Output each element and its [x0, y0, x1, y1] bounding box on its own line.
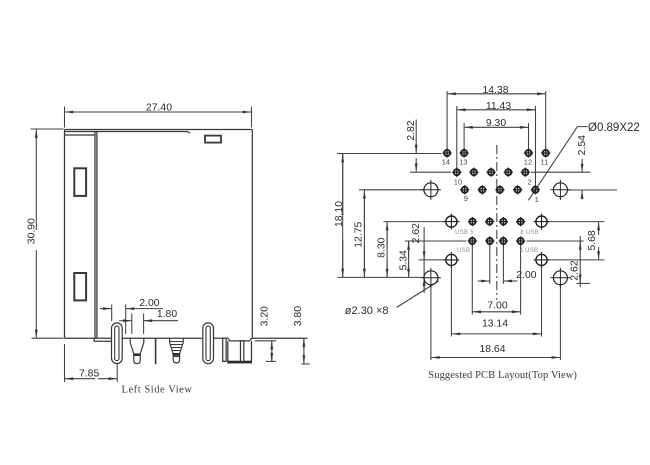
svg-text:USB 5: USB 5 — [455, 230, 474, 236]
svg-text:10: 10 — [454, 178, 462, 187]
svg-text:Left Side View: Left Side View — [122, 385, 193, 396]
svg-text:3.20: 3.20 — [260, 306, 271, 326]
svg-text:8 USB: 8 USB — [520, 230, 539, 236]
svg-text:2.82: 2.82 — [406, 120, 417, 140]
svg-text:7.00: 7.00 — [487, 300, 507, 311]
svg-text:8.30: 8.30 — [376, 237, 387, 257]
svg-text:2.00: 2.00 — [139, 298, 159, 309]
svg-text:9: 9 — [464, 194, 468, 203]
svg-text:1.80: 1.80 — [157, 309, 177, 320]
svg-text:13: 13 — [459, 157, 467, 166]
svg-text:2: 2 — [527, 178, 531, 187]
svg-text:18.64: 18.64 — [479, 344, 505, 355]
svg-text:11.43: 11.43 — [486, 101, 511, 112]
svg-text:27.40: 27.40 — [146, 103, 172, 114]
svg-text:7.85: 7.85 — [79, 369, 99, 380]
svg-text:USB: USB — [457, 248, 470, 254]
svg-text:14: 14 — [442, 157, 450, 166]
svg-text:12: 12 — [524, 157, 532, 166]
svg-text:12.75: 12.75 — [354, 221, 365, 247]
svg-text:Suggested PCB Layout(Top View): Suggested PCB Layout(Top View) — [428, 370, 577, 381]
svg-text:13.14: 13.14 — [482, 319, 508, 330]
svg-text:14.38: 14.38 — [482, 85, 508, 96]
svg-text:2.62: 2.62 — [411, 223, 422, 243]
svg-text:2.62: 2.62 — [570, 260, 581, 280]
svg-text:4 USB: 4 USB — [520, 248, 539, 254]
svg-text:Ø0.89X22: Ø0.89X22 — [588, 122, 640, 134]
svg-text:11: 11 — [541, 157, 549, 166]
svg-text:1: 1 — [535, 195, 539, 204]
svg-text:5.68: 5.68 — [587, 230, 598, 250]
svg-text:5.34: 5.34 — [399, 250, 410, 270]
svg-text:9.30: 9.30 — [486, 118, 506, 129]
svg-text:2.54: 2.54 — [577, 135, 588, 155]
svg-text:ø2.30 ×8: ø2.30 ×8 — [345, 305, 389, 317]
svg-text:30.90: 30.90 — [27, 218, 38, 244]
svg-text:18.10: 18.10 — [334, 201, 345, 227]
svg-text:2.00: 2.00 — [516, 270, 536, 281]
svg-text:3.80: 3.80 — [293, 306, 304, 326]
